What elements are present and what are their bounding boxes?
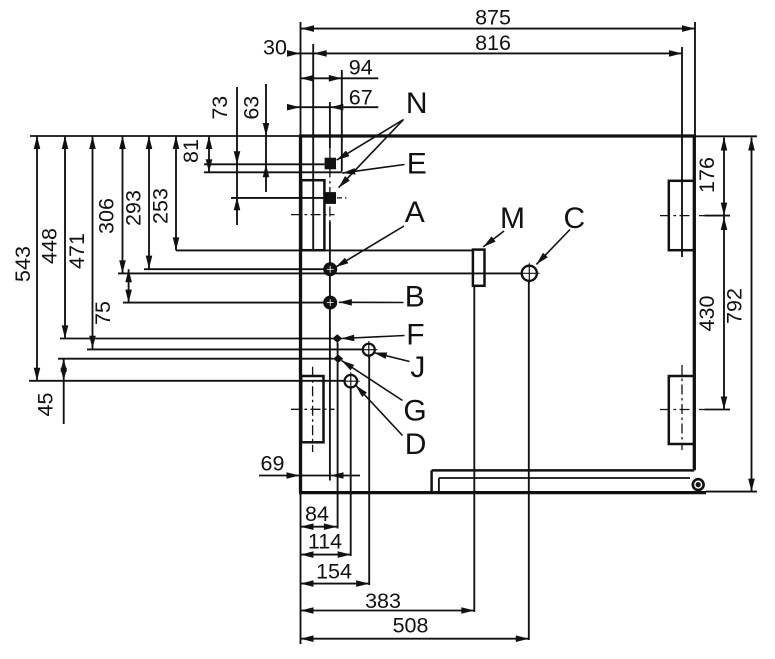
svg-text:J: J (410, 351, 425, 384)
svg-text:E: E (407, 147, 427, 180)
svg-text:73: 73 (208, 96, 232, 120)
svg-text:30: 30 (263, 36, 287, 60)
svg-text:471: 471 (65, 233, 89, 269)
svg-text:A: A (405, 196, 425, 229)
svg-text:383: 383 (365, 589, 401, 613)
svg-text:D: D (405, 428, 427, 461)
svg-text:67: 67 (349, 85, 373, 109)
svg-text:543: 543 (11, 246, 35, 282)
svg-text:69: 69 (261, 452, 285, 476)
svg-text:63: 63 (240, 96, 264, 120)
svg-text:N: N (406, 87, 428, 120)
svg-text:293: 293 (122, 190, 146, 226)
svg-text:816: 816 (475, 31, 511, 55)
svg-text:G: G (403, 394, 426, 427)
svg-text:253: 253 (149, 188, 173, 224)
svg-text:154: 154 (316, 560, 352, 584)
svg-text:M: M (500, 202, 525, 235)
svg-text:B: B (405, 281, 425, 314)
svg-text:176: 176 (695, 157, 719, 193)
svg-text:114: 114 (308, 530, 342, 554)
svg-text:792: 792 (723, 288, 747, 324)
svg-text:F: F (406, 319, 424, 352)
svg-text:875: 875 (475, 5, 511, 29)
svg-text:81: 81 (179, 139, 203, 163)
svg-text:306: 306 (95, 198, 119, 234)
svg-text:75: 75 (91, 301, 115, 325)
svg-text:94: 94 (349, 56, 373, 80)
svg-text:508: 508 (393, 614, 429, 638)
svg-text:430: 430 (695, 296, 719, 332)
svg-text:448: 448 (38, 228, 62, 264)
svg-text:45: 45 (34, 393, 58, 417)
svg-text:84: 84 (305, 502, 329, 526)
svg-text:C: C (564, 202, 586, 235)
